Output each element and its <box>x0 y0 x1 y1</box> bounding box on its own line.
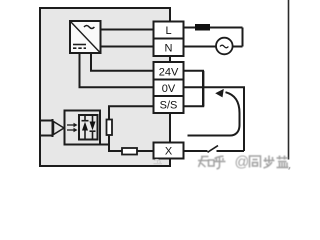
svg-text:24V: 24V <box>159 66 179 78</box>
svg-text:0V: 0V <box>162 83 176 95</box>
svg-text:@: @ <box>235 155 250 171</box>
svg-text:X: X <box>165 146 173 158</box>
svg-text:L: L <box>165 25 171 37</box>
svg-text:N: N <box>165 43 173 55</box>
svg-text:S/S: S/S <box>160 99 178 111</box>
